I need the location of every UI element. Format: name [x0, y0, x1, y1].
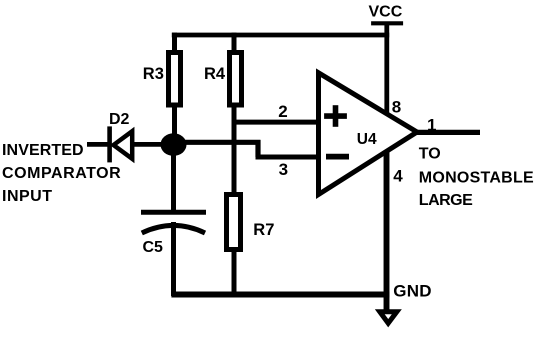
svg-text:D2: D2 — [109, 111, 130, 128]
wire corner vertical — [255, 140, 260, 157]
annotation INVERTED COMPARATOR INPUT — [2, 142, 121, 205]
capacitor C5 — [141, 212, 206, 233]
wire C5 top lead — [171, 144, 176, 214]
wire top rail — [172, 33, 389, 38]
svg-text:3: 3 — [279, 160, 288, 179]
svg-text:R3: R3 — [143, 65, 164, 83]
svg-text:LARGE: LARGE — [419, 192, 473, 209]
svg-text:COMPARATOR: COMPARATOR — [2, 165, 121, 182]
wire op-amp pin 2 input — [234, 120, 320, 125]
svg-text:U4: U4 — [357, 131, 377, 148]
svg-text:R7: R7 — [253, 221, 274, 239]
op-amp minus input symbol — [326, 154, 349, 160]
power symbol VCC bar — [371, 21, 403, 25]
resistor R7 — [227, 155, 241, 296]
svg-text:R4: R4 — [204, 65, 226, 83]
wire input to diode — [87, 142, 110, 147]
svg-text:4: 4 — [393, 166, 403, 185]
ground symbol GND — [380, 312, 397, 323]
resistor R3 — [169, 33, 181, 146]
wire bottom rail — [171, 292, 389, 298]
resistor R4 — [230, 33, 242, 196]
op-amp plus input symbol — [324, 105, 347, 127]
svg-text:VCC: VCC — [369, 3, 403, 20]
annotation TO MONOSTABLE LARGE — [419, 145, 534, 209]
wire op-amp pin 4 to ground — [384, 151, 390, 313]
wire VCC vertical to op-amp pin 8 — [384, 22, 389, 113]
svg-text:TO: TO — [419, 145, 441, 162]
svg-text:8: 8 — [392, 98, 401, 117]
diode D2 — [110, 126, 133, 162]
wire diode to junction — [131, 142, 172, 147]
junction dot node — [161, 133, 187, 156]
wire C5 bottom lead — [171, 222, 176, 296]
op-amp U4 — [319, 73, 418, 195]
wire op-amp output pin 1 — [417, 130, 480, 135]
svg-text:2: 2 — [278, 102, 287, 121]
svg-text:INPUT: INPUT — [2, 188, 53, 205]
svg-text:GND: GND — [393, 281, 432, 300]
svg-text:INVERTED: INVERTED — [2, 142, 84, 159]
wire op-amp pin 3 input — [256, 155, 321, 160]
wire junction to corner — [174, 140, 261, 145]
svg-text:C5: C5 — [143, 239, 164, 256]
svg-text:MONOSTABLE: MONOSTABLE — [419, 170, 534, 187]
